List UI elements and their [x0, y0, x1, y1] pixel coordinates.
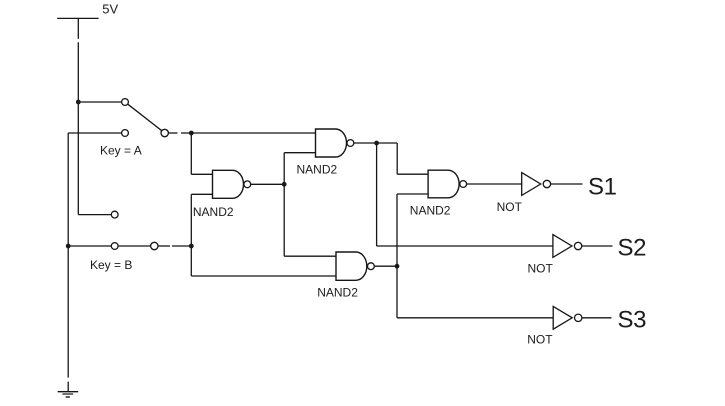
node E junction: [395, 264, 400, 269]
node B junction: [189, 244, 194, 249]
wire ground stub: [67, 382, 69, 392]
svg-text:Key = B: Key = B: [90, 258, 132, 272]
wire node A down to U1: [190, 133, 192, 174]
switch J1 Key=A pole terminal: [161, 129, 168, 136]
power supply VCC 5V bar: [57, 17, 98, 19]
svg-text:NAND2: NAND2: [410, 204, 451, 218]
svg-text:S2: S2: [618, 235, 647, 262]
node C junction: [282, 182, 287, 187]
svg-text:NAND2: NAND2: [193, 205, 234, 219]
wire node C to U3 top input: [284, 255, 336, 257]
switch J1 Key=A top throw terminal: [122, 99, 129, 106]
switch J2 Key=B arm: [118, 245, 151, 247]
not gate U7 triangle: [553, 306, 572, 329]
nand gate U1 output bubble: [244, 181, 251, 188]
wire switch B pole segment 1: [158, 245, 170, 247]
wire switch A pole segment 2: [181, 132, 191, 134]
wire into U4 top input: [397, 173, 428, 175]
nand gate U4 NAND2: [428, 170, 459, 198]
nand gate U2 output bubble: [347, 140, 354, 147]
nand gate U4 output bubble: [460, 181, 467, 188]
wire U7 output S3: [582, 317, 611, 319]
wire into U1 bottom input: [191, 193, 212, 195]
wire U4 output to NOT U5: [467, 183, 522, 185]
wire node E up to U4 bottom input: [396, 194, 398, 266]
wire ground rail to switch B bottom throw: [68, 245, 111, 247]
wire VCC stub: [77, 18, 79, 38]
wire U5 output S1: [551, 183, 583, 185]
switch J2 Key=B pole terminal: [151, 242, 158, 249]
not gate U7 bubble: [575, 314, 582, 321]
wire S3 row horizontal: [397, 317, 553, 319]
wire S2 row horizontal: [377, 245, 553, 247]
wire rail to switch A top throw: [78, 101, 121, 103]
wire switch A pole segment 1: [169, 132, 178, 134]
wire node E down to S3 row: [396, 266, 398, 318]
svg-text:5V: 5V: [102, 2, 118, 17]
wire ground rail vertical: [67, 133, 69, 378]
wire rail elbow to switch B top throw: [78, 214, 111, 216]
wire node A to NAND2 U2 top input: [191, 132, 315, 134]
svg-text:Key = A: Key = A: [100, 143, 142, 157]
node junction ground / switch B: [66, 244, 71, 249]
wire U6 output S2: [582, 245, 613, 247]
wire node D down to U4 top input: [396, 143, 398, 174]
wire into U4 bottom input: [397, 193, 428, 195]
not gate U6 bubble: [574, 242, 581, 249]
wire U1 output to node C: [251, 183, 284, 185]
ground symbol: [58, 392, 78, 397]
not gate U6 triangle: [553, 235, 572, 258]
wire U2 output to node D: [354, 142, 397, 144]
switch J2 Key=B top throw terminal: [111, 211, 118, 218]
nand gate U2 NAND2: [316, 129, 347, 157]
svg-text:S3: S3: [618, 307, 647, 334]
wire node B up to U1 bottom input: [190, 194, 192, 246]
svg-text:NAND2: NAND2: [297, 162, 338, 176]
svg-text:S1: S1: [588, 173, 617, 200]
wire node D down to S2 row: [376, 143, 378, 246]
wire node C to U2 bottom input: [284, 152, 315, 154]
wire into U1 top input: [191, 173, 212, 175]
svg-text:NOT: NOT: [528, 262, 554, 276]
nand gate U1 NAND2: [213, 170, 244, 198]
switch J1 Key=A arm: [128, 104, 162, 131]
not gate U5 bubble: [543, 180, 550, 187]
nand gate U3 NAND2: [336, 252, 367, 280]
svg-text:NOT: NOT: [497, 200, 523, 214]
switch J1 Key=A bottom throw terminal: [122, 130, 129, 137]
wire switch A bottom throw to ground rail: [68, 132, 121, 134]
wire node C vertical: [283, 153, 285, 257]
node junction VCC / switch A: [76, 100, 81, 105]
svg-text:NOT: NOT: [527, 333, 553, 347]
wire U3 output to node E: [375, 265, 398, 267]
node D junction: [374, 141, 379, 146]
wire node B down to U3: [190, 246, 192, 276]
wire switch B pole segment 2: [172, 245, 191, 247]
wire VCC rail vertical: [77, 42, 79, 214]
svg-text:NAND2: NAND2: [317, 286, 358, 300]
node A junction: [189, 131, 194, 136]
not gate U5 triangle: [522, 173, 541, 196]
switch J2 Key=B bottom throw terminal: [111, 243, 118, 250]
nand gate U3 output bubble: [368, 263, 375, 270]
wire node B to NAND2 U3 bottom input: [191, 275, 336, 277]
